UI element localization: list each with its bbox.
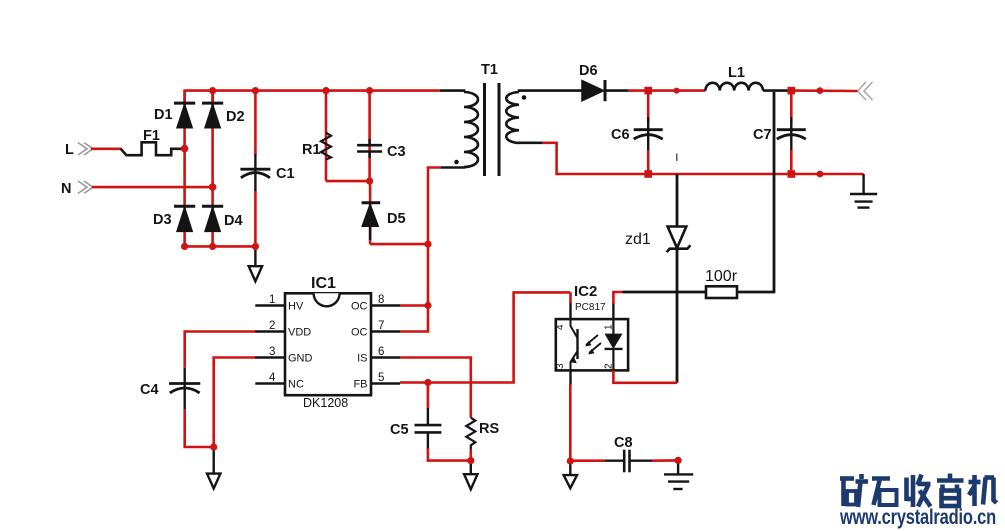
- svg-text:2: 2: [269, 320, 275, 332]
- pin 8 OC lead: [371, 304, 400, 306]
- diode D5: [362, 203, 381, 240]
- svg-text:D1: D1: [154, 107, 173, 123]
- ground below RS: [464, 461, 477, 490]
- wire C3 column: [368, 91, 371, 182]
- pin 3 GND lead: [255, 356, 285, 358]
- svg-text:www.crystalradio.cn: www.crystalradio.cn: [839, 506, 996, 529]
- svg-text:2: 2: [604, 363, 615, 369]
- earth ground right: [850, 174, 877, 208]
- svg-text:4: 4: [269, 372, 276, 384]
- pin 7 OC lead: [371, 330, 400, 332]
- svg-text:C5: C5: [390, 422, 409, 438]
- stray mark above rail at zd1: [676, 154, 678, 162]
- svg-text:3: 3: [555, 363, 566, 369]
- IC2 light arrows: [585, 335, 601, 355]
- IC2 pin 2 lead: [613, 370, 677, 382]
- wire RS bottom stub: [469, 450, 472, 461]
- capacitor C8: [624, 450, 629, 473]
- svg-text:7: 7: [378, 320, 384, 332]
- pin 2 VDD lead: [255, 330, 285, 332]
- wire L1 to C7 node: [763, 89, 791, 92]
- wire N input to bridge: [92, 186, 213, 189]
- svg-text:VDD: VDD: [288, 327, 311, 339]
- svg-text:NC: NC: [288, 379, 304, 391]
- svg-text:5: 5: [378, 372, 384, 384]
- svg-text:D4: D4: [224, 213, 243, 229]
- svg-text:C1: C1: [276, 166, 295, 182]
- diode D3: [174, 206, 195, 231]
- IC2 internal phototransistor: [570, 319, 577, 370]
- svg-text:IC2: IC2: [574, 283, 597, 300]
- svg-text:OC: OC: [351, 327, 368, 339]
- node N input terminal: [78, 181, 93, 193]
- svg-text:T1: T1: [481, 62, 498, 78]
- IC1 pin numbers: [269, 294, 384, 384]
- wire R1 C3 bottom join: [326, 180, 370, 183]
- capacitor C3: [357, 139, 382, 158]
- capacitor C4: [169, 368, 200, 410]
- svg-text:FB: FB: [353, 379, 367, 391]
- svg-text:RS: RS: [479, 421, 499, 437]
- wire D2 column: [211, 91, 214, 247]
- wire L input to F1: [91, 148, 122, 151]
- diode D6: [582, 80, 629, 101]
- pin 5 FB lead: [371, 382, 400, 384]
- svg-text:C6: C6: [611, 127, 630, 143]
- wire FB pin5 to optocoupler: [400, 292, 571, 382]
- wire T1 secondary bottom to lower rail: [542, 143, 863, 174]
- wire output to terminal: [791, 89, 857, 92]
- diode D1: [174, 91, 195, 128]
- wire C5 bottom to RS bottom: [427, 434, 429, 450]
- wire GND pin3 down: [214, 358, 257, 448]
- wire C8 row: [570, 459, 678, 462]
- wire bottom rail of bridge: [185, 245, 256, 248]
- optocoupler IC2 body: [556, 319, 628, 370]
- svg-text:N: N: [61, 181, 71, 197]
- resistor R1: [321, 133, 331, 160]
- ground below IC2 pin3: [564, 461, 577, 488]
- resistor 100r: [623, 286, 776, 298]
- ground below C4 join: [207, 447, 220, 489]
- svg-text:DK1208: DK1208: [303, 396, 348, 410]
- pin 1 HV lead: [255, 304, 285, 306]
- svg-text:PC817: PC817: [575, 302, 606, 313]
- wire IS pin6 to RS: [400, 358, 471, 418]
- wire C4 bottom to ground join: [185, 409, 214, 447]
- svg-text:R1: R1: [302, 142, 321, 158]
- svg-text:IS: IS: [357, 353, 367, 365]
- watermark chinese logo: [840, 474, 997, 508]
- svg-text:C4: C4: [140, 382, 159, 398]
- IC2 pin numbers (rotated): [555, 324, 615, 369]
- svg-text:1: 1: [604, 324, 615, 330]
- diode D2: [202, 91, 223, 128]
- wire output rail: [628, 89, 705, 92]
- transformer T1: [440, 83, 582, 176]
- svg-text:6: 6: [378, 346, 384, 358]
- IC2 pin 3 lead: [569, 370, 572, 461]
- wire C5 column: [427, 383, 430, 409]
- pin 4 NC lead: [255, 382, 285, 384]
- inductor L1: [705, 83, 763, 91]
- wire T1 primary bottom return column: [428, 168, 441, 306]
- wire D5 column: [369, 181, 372, 244]
- capacitor C6: [634, 91, 663, 174]
- wire C1 column: [254, 91, 257, 155]
- diode D4: [202, 206, 223, 231]
- svg-text:D5: D5: [387, 211, 406, 227]
- svg-text:1: 1: [269, 294, 275, 306]
- wire top rail (rectified +): [185, 91, 440, 149]
- svg-text:C7: C7: [753, 127, 772, 143]
- svg-text:C3: C3: [387, 144, 406, 160]
- svg-text:IC1: IC1: [311, 275, 336, 292]
- ground below C1: [249, 246, 262, 281]
- wire R1 column: [325, 91, 328, 182]
- fuse F1: [121, 142, 184, 155]
- svg-text:F1: F1: [143, 128, 160, 144]
- capacitor C1: [240, 154, 270, 191]
- zener zd1: [667, 174, 691, 383]
- svg-text:GND: GND: [288, 353, 313, 365]
- op-amp IC1 body: [285, 293, 371, 395]
- node L input terminal: [78, 143, 93, 155]
- wire D1-D3 column: [183, 149, 186, 247]
- svg-text:100r: 100r: [705, 268, 738, 285]
- svg-text:zd1: zd1: [625, 231, 651, 248]
- svg-text:C8: C8: [614, 435, 633, 451]
- capacitor C7: [777, 91, 806, 174]
- value labels: [61, 62, 772, 451]
- IC2 internal LED: [605, 319, 623, 370]
- svg-text:D6: D6: [579, 63, 598, 79]
- pin 6 IS lead: [371, 356, 400, 358]
- svg-text:4: 4: [555, 324, 566, 330]
- svg-text:OC: OC: [351, 301, 368, 313]
- resistor RS: [466, 418, 475, 450]
- IC2 pin 1 lead: [613, 292, 622, 319]
- IC2 pin 4 lead: [569, 292, 571, 319]
- wire D5 bottom to snubber node: [370, 243, 428, 246]
- wire pin8 to pin7 link: [400, 306, 428, 332]
- wire VDD pin2 to C4: [185, 332, 257, 368]
- svg-text:D3: D3: [153, 212, 172, 228]
- svg-text:L: L: [65, 142, 74, 158]
- svg-text:8: 8: [378, 294, 384, 306]
- wire feedback sense vertical: [773, 92, 776, 292]
- svg-text:D2: D2: [226, 109, 245, 125]
- node OUT output terminal: [858, 82, 873, 100]
- IC1 pin names: [288, 301, 368, 391]
- capacitor C5: [415, 425, 442, 432]
- earth ground below C8: [664, 460, 693, 489]
- svg-text:L1: L1: [728, 65, 745, 81]
- svg-text:3: 3: [269, 346, 275, 358]
- svg-text:HV: HV: [288, 301, 304, 313]
